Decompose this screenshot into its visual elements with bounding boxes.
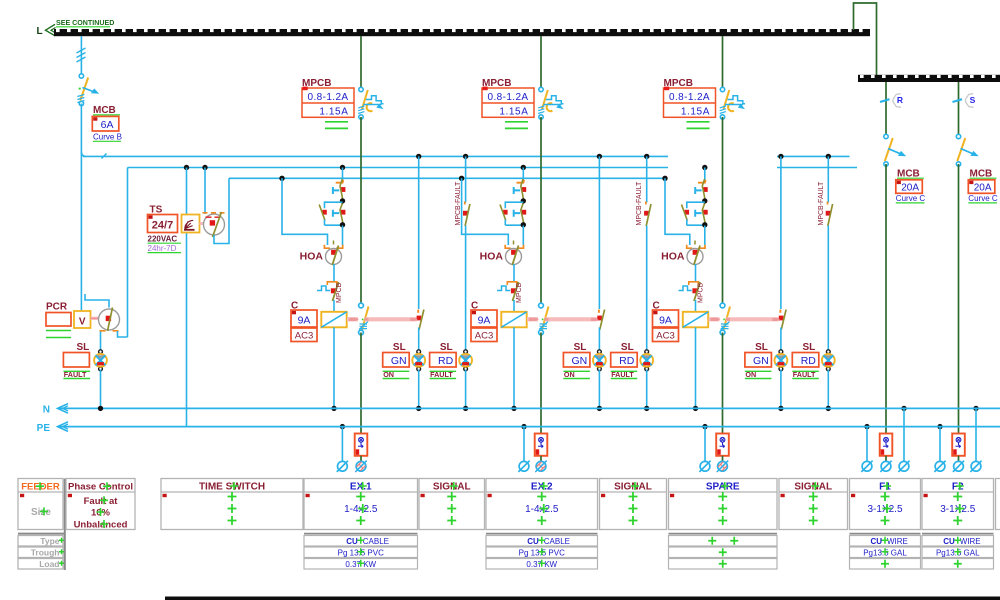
svg-text:0.8-1.2A: 0.8-1.2A: [669, 92, 710, 103]
wire: EX.2 SL RD lamp to N bus: [646, 370, 648, 409]
svg-text:HOA: HOA: [480, 250, 504, 262]
wire: SL FAULT lamp to N bus: [100, 370, 102, 409]
terminal EX.2 PE: [518, 461, 529, 472]
svg-text:Curve C: Curve C: [968, 194, 998, 203]
svg-text:V: V: [79, 317, 86, 328]
wire: control bus L1 segment B (SPARE lamps): [777, 155, 850, 157]
svg-text:AC3: AC3: [656, 331, 674, 342]
node: N bus junction (PCR lamp): [98, 406, 103, 411]
wire: SPARE SL RD lamp to N bus: [827, 370, 829, 409]
table: FEEDER sub rows Type/Trough/Load: [18, 533, 64, 535]
contact: contactor SPARE main contact: [720, 303, 730, 335]
breaker MCB F1 symbol: [884, 134, 906, 166]
svg-text:TIME SWITCH: TIME SWITCH: [199, 482, 265, 493]
svg-text:MPCB: MPCB: [698, 282, 705, 303]
wire: EX.2 terminal stub: [540, 456, 542, 461]
lamp SL GN ON EX.1 symbol: [412, 350, 425, 371]
wire: SPARE fault aux to SL RD lamp: [827, 226, 829, 352]
wire: MCB 6A to PCR voltage relay V: [80, 104, 82, 312]
svg-text:Size: Size: [31, 507, 51, 518]
svg-text:AC3: AC3: [475, 331, 493, 342]
wire: drop from L busbar to MCB Q0: [80, 36, 82, 76]
table: column EX.1 sub-table: [304, 533, 418, 535]
wire: SPARE HOA to MPCB aux contact: [695, 264, 697, 281]
svg-text:3-1X2.5: 3-1X2.5: [867, 504, 902, 515]
lamp SL RD FAULT SPARE symbol: [822, 350, 835, 371]
wire: SPARE MPCB aux to contactor coil: [695, 300, 697, 312]
contact: EX.2 contactor aux NO: [598, 310, 600, 313]
switch HOA EX.1 circle: [326, 249, 342, 265]
wire: control bus L2 (y=167.5): [128, 167, 669, 169]
linkage EX.1 coil to contacts (pink): [347, 317, 358, 321]
breaker MCB F2 symbol: [956, 134, 978, 166]
svg-text:1.15A: 1.15A: [499, 106, 528, 117]
timer TS dial icon box: [182, 215, 200, 233]
wire: EX.2 SL ON lamp to N bus: [598, 370, 600, 409]
linkage SPARE coil to contacts (pink): [709, 317, 720, 321]
table: column F1 (849): [850, 479, 921, 530]
svg-text:GN: GN: [753, 355, 769, 367]
svg-text:3-1X2.5: 3-1X2.5: [940, 504, 975, 515]
svg-text:SL: SL: [77, 342, 90, 353]
table: column EX.2 sub-table: [486, 533, 598, 535]
svg-text:CABLE: CABLE: [363, 537, 389, 546]
svg-text:SEE CONTINUED: SEE CONTINUED: [56, 19, 114, 27]
wire: EX.1 aux NO to SL ON lamp: [418, 328, 420, 352]
svg-text:FAULT: FAULT: [611, 370, 634, 379]
wire: EX.2 selector feed from bus L2: [521, 165, 526, 170]
wire: PE bus: [58, 426, 1000, 428]
svg-text:F2: F2: [952, 482, 964, 493]
wire: EX.1 PE terminal drop: [340, 424, 345, 429]
svg-text:ON: ON: [564, 370, 575, 379]
relay PCR coil V box: [74, 311, 91, 328]
table: column SIGNAL (599): [600, 479, 667, 530]
contact: contactor EX.1 main contact: [359, 303, 369, 335]
breaker MCB 6A (symbol): [77, 74, 99, 106]
table: column SPARE (668): [669, 479, 778, 530]
contact: EX.2 selector position 2 (right): [514, 210, 520, 217]
wire: riser x=127.5 to control bus L2: [127, 168, 129, 338]
lamp SL FAULT (PCR) symbol: [94, 350, 107, 371]
svg-text:SL: SL: [621, 342, 634, 353]
svg-text:CU: CU: [527, 537, 539, 546]
svg-text:S: S: [970, 95, 976, 105]
svg-text:RD: RD: [801, 355, 817, 367]
wire: EX.1 ON lamp line from bus L1: [416, 154, 421, 159]
wire: SPARE selector feed from bus L2: [702, 165, 707, 170]
table: column EX.2 (486): [486, 479, 598, 530]
wire: L busbar (top horizontal busbar): [54, 29, 870, 36]
wire: F1 PE terminal drop: [864, 424, 869, 429]
wire: control bus L2 segment B: [777, 167, 857, 169]
svg-text:CU: CU: [943, 537, 955, 546]
terminal block EX.2: [535, 434, 548, 456]
svg-text:Phase Control: Phase Control: [68, 481, 133, 492]
svg-text:20A: 20A: [974, 183, 992, 194]
svg-text:ON: ON: [745, 370, 756, 379]
wire: EX.1 SL ON lamp to N bus: [418, 370, 420, 409]
svg-text:SIGNAL: SIGNAL: [794, 482, 832, 493]
svg-text:Load: Load: [39, 559, 59, 569]
svg-text:SL: SL: [574, 342, 587, 353]
svg-text:Curve B: Curve B: [93, 133, 122, 142]
contactor EX.2 coil: [501, 312, 526, 328]
wire: EX.1 selector feed from bus L2: [340, 165, 345, 170]
lamp SL GN ON EX.2 symbol: [593, 350, 606, 371]
svg-text:0.8-1.2A: 0.8-1.2A: [307, 92, 348, 103]
svg-text:SL: SL: [440, 342, 453, 353]
contact: EX.2 selector position 1: [517, 180, 525, 183]
wire: F2 green line MCB to terminal: [958, 164, 960, 434]
lamp SL RD FAULT EX.1 symbol: [459, 350, 472, 371]
terminal EX.1 PE: [337, 461, 348, 472]
wire: EX.2 green line main contact to terminal: [540, 333, 542, 434]
svg-text:N: N: [43, 405, 50, 416]
wire: EX.2 HOA to MPCB aux contact: [513, 264, 515, 281]
wire: EX.1 selector bracket lower: [325, 224, 343, 226]
wire: SPARE selector output down to HOA: [704, 226, 706, 246]
svg-text:9A: 9A: [298, 314, 311, 326]
contact: SPARE selector position 1: [698, 180, 706, 183]
wire: EX.1 selector bracket upper: [325, 202, 343, 208]
svg-text:9A: 9A: [478, 314, 491, 326]
contactor SPARE coil: [683, 312, 708, 328]
wire: SPARE ON lamp line from bus L1: [778, 154, 783, 159]
wire: control bus L3 (y=178.3) after time switch: [229, 177, 665, 179]
wire: SPARE hand feed from bus L3: [662, 176, 667, 181]
wire: EX.2 fault aux to SL RD lamp: [646, 226, 648, 352]
terminal block EX.1: [355, 434, 368, 456]
svg-text:EX.2: EX.2: [531, 482, 553, 493]
wire: control bus L1 tap corner: [81, 152, 85, 156]
contactor EX.1 coil: [321, 312, 346, 328]
wire: EX.2 aux NO to SL ON lamp: [598, 328, 600, 352]
svg-text:ON: ON: [383, 370, 394, 379]
svg-text:L: L: [37, 26, 43, 37]
svg-text:FAULT: FAULT: [64, 370, 87, 379]
svg-text:Type: Type: [40, 536, 59, 546]
breaker MPCB EX.2 symbol: [538, 87, 563, 119]
contact: TS timed contact: [204, 214, 225, 235]
terminal block SPARE: [716, 434, 729, 456]
svg-text:SL: SL: [755, 342, 768, 353]
svg-text:RD: RD: [438, 355, 454, 367]
wire: F1 drop from right busbar: [885, 82, 887, 137]
wire: EX.2 green line MPCB to main contact: [540, 117, 542, 305]
wire: EX.1 green line MPCB to main contact: [360, 117, 362, 305]
table: Phase Control box: [66, 479, 135, 530]
node R: phase tag: [893, 94, 901, 108]
breaker MPCB SPARE symbol: [720, 87, 745, 119]
svg-text:RD: RD: [619, 355, 635, 367]
linkage PCR V to contact: [91, 317, 100, 320]
wire: SPARE SL ON lamp to N bus: [780, 370, 782, 409]
terminal SPARE outgoing (hatched): [717, 461, 729, 473]
svg-text:HOA: HOA: [300, 250, 324, 262]
svg-text:CU: CU: [870, 537, 882, 546]
linkage EX.2 coil to contacts (pink): [527, 317, 538, 321]
svg-text:MPCB-FAULT: MPCB-FAULT: [636, 181, 643, 226]
wire: F2 PE terminal drop: [937, 424, 942, 429]
terminal F1 outgoing: [880, 461, 891, 472]
switch HOA EX.2 brackets: [505, 245, 523, 248]
svg-text:SPARE: SPARE: [706, 482, 740, 493]
wire: SPARE terminal stub: [722, 456, 724, 461]
wire: EX.1 MPCB aux to contactor coil: [333, 300, 335, 312]
table: column EX.1 (304): [304, 479, 418, 530]
switch HOA SPARE brackets: [687, 245, 705, 248]
table: FEEDER box: [18, 479, 63, 530]
svg-text:MPCB-FAULT: MPCB-FAULT: [818, 181, 825, 226]
table: partial column at right edge: [996, 479, 1000, 530]
breaker MPCB EX.1 symbol: [358, 87, 383, 119]
svg-text:WIRE: WIRE: [887, 537, 908, 546]
terminal SPARE PE: [699, 461, 710, 472]
svg-text:AC3: AC3: [295, 331, 313, 342]
svg-text:PCR: PCR: [46, 302, 68, 313]
svg-text:PE: PE: [37, 423, 51, 434]
wire: EX.1 SL RD lamp to N bus: [465, 370, 467, 409]
wire: SPARE selector bracket lower: [687, 224, 705, 226]
svg-text:1.15A: 1.15A: [681, 106, 710, 117]
wire: SPARE FAULT lamp line from bus L1: [826, 154, 831, 159]
wire: EX.2 power feeder (green) from L busbar: [540, 36, 542, 90]
svg-text:FAULT: FAULT: [430, 370, 453, 379]
svg-text:FAULT: FAULT: [793, 370, 816, 379]
linkage TS to contact: [200, 222, 205, 225]
contact: SPARE MPCB aux contact: [689, 282, 699, 285]
svg-text:Fault at: Fault at: [84, 496, 119, 507]
node S: phase tag: [966, 94, 974, 108]
contact: EX.1 selector position 2 (left): [322, 210, 327, 215]
svg-text:220VAC: 220VAC: [148, 235, 178, 244]
3-phase slash marks on MCB drop: [77, 48, 86, 62]
svg-text:R: R: [897, 95, 903, 105]
terminal block F1: [880, 434, 893, 456]
wire: SPARE PE terminal drop: [702, 424, 707, 429]
lamp SL GN ON SPARE symbol: [775, 350, 788, 371]
svg-text:EX.1: EX.1: [350, 482, 372, 493]
svg-text:24/7: 24/7: [152, 220, 173, 232]
wire: EX.1 green line main contact to terminal: [360, 333, 362, 434]
switch HOA EX.1 brackets: [324, 245, 342, 248]
wire: F1 N terminal drop: [901, 406, 906, 411]
svg-text:SL: SL: [393, 342, 406, 353]
wire: EX.1 fault aux to SL RD lamp: [465, 226, 467, 352]
wire: continued busbar at bottom edge: [165, 597, 1000, 600]
svg-text:GN: GN: [572, 355, 588, 367]
terminal F2 outgoing: [953, 461, 964, 472]
terminal EX.2 outgoing (hatched): [535, 461, 547, 473]
svg-text:24hr-7D: 24hr-7D: [148, 244, 177, 253]
terminal block F2: [952, 434, 965, 456]
contact: contactor EX.2 main contact: [539, 303, 549, 335]
svg-text:9A: 9A: [659, 314, 672, 326]
svg-text:20A: 20A: [901, 183, 919, 194]
wire: drop bus L2 to PE (x=186.5): [184, 165, 189, 170]
wire: drop bus L2 to TS contact: [202, 165, 207, 170]
wire: EX.2 FAULT lamp line from bus L1: [644, 154, 649, 159]
lamp SL RD FAULT EX.2 symbol: [640, 350, 653, 371]
svg-text:MPCB: MPCB: [516, 282, 523, 303]
contact: SPARE selector position 2 (right): [695, 210, 701, 217]
wire: EX.1 terminal stub: [360, 456, 362, 461]
wire: EX.2 selector bracket lower: [505, 224, 523, 226]
table: column F2 (922): [922, 479, 994, 530]
wire: right busbar: [858, 75, 1000, 82]
svg-text:CU: CU: [346, 537, 358, 546]
wire: EX.2 PE terminal drop: [521, 424, 526, 429]
wire: EX.1 coil to N bus: [333, 327, 335, 408]
contact: PCR changeover contact: [99, 309, 120, 330]
table: column F1 sub-table: [850, 533, 921, 535]
svg-text:SIGNAL: SIGNAL: [614, 482, 652, 493]
wire: TS contact output to control bus L3: [214, 178, 229, 243]
wire: SPARE selector bracket upper: [687, 202, 705, 208]
svg-text:F1: F1: [879, 482, 891, 493]
wire: EX.2 selector output down to HOA: [522, 226, 524, 246]
table: column SPARE sub-table: [669, 533, 778, 535]
wire: F2 drop from right busbar: [958, 82, 960, 137]
svg-text:SIGNAL: SIGNAL: [433, 482, 471, 493]
wire: EX.1 power feeder (green) from L busbar: [360, 36, 362, 90]
wire: SPARE aux NO to SL ON lamp: [780, 328, 782, 352]
contact: EX.1 contactor aux NO: [417, 310, 419, 313]
svg-text:Trough: Trough: [31, 547, 60, 557]
contact: SPARE contactor aux NO: [779, 310, 781, 313]
svg-text:1-4x2.5: 1-4x2.5: [344, 504, 378, 515]
contact: EX.1 selector position 1: [336, 180, 344, 183]
svg-text:0.8-1.2A: 0.8-1.2A: [487, 92, 528, 103]
wire: EX.2 selector bracket upper: [505, 202, 523, 208]
wire: PCR contact NC side jog to control bus L2 riser: [118, 331, 128, 337]
table: column SIGNAL (419): [419, 479, 485, 530]
svg-text:CABLE: CABLE: [544, 537, 570, 546]
table: column TIME SWITCH (161): [161, 479, 303, 530]
contact: SPARE selector position 2 (left): [685, 210, 690, 215]
svg-text:Curve C: Curve C: [896, 194, 926, 203]
svg-text:1.15A: 1.15A: [319, 106, 348, 117]
svg-text:WIRE: WIRE: [960, 537, 981, 546]
svg-text:SL: SL: [803, 342, 816, 353]
wire: SPARE green line main contact to terminal: [722, 333, 724, 434]
svg-text:1-4x2.5: 1-4x2.5: [525, 504, 559, 515]
wire: jumper from L busbar to right busbar: [854, 3, 877, 76]
contact: EX.1 MPCB aux contact: [327, 282, 337, 285]
switch HOA SPARE circle: [687, 249, 703, 265]
terminal EX.1 outgoing (hatched): [355, 461, 367, 473]
svg-text:HOA: HOA: [661, 250, 685, 262]
table: column SIGNAL (779): [779, 479, 848, 530]
wire: EX.2 coil to N bus: [513, 327, 515, 408]
contact: EX.2 MPCB aux contact: [507, 282, 517, 285]
wire: F2 N terminal drop: [973, 406, 978, 411]
svg-text:MPCB: MPCB: [336, 282, 343, 303]
wire: SPARE coil to N bus: [695, 327, 697, 408]
wire: SPARE power feeder (green) from L busbar: [722, 36, 724, 90]
wire: EX.1 hand feed from bus L3: [279, 176, 284, 181]
svg-text:6A: 6A: [101, 119, 114, 131]
contact: EX.1 selector position 2 (right): [333, 210, 339, 217]
wire: control bus L1 (y=156.4): [83, 155, 668, 157]
wire: SPARE green line MPCB to main contact: [722, 117, 724, 305]
wire: EX.2 hand feed from bus L3: [459, 176, 464, 181]
wire: EX.2 ON lamp line from bus L1: [597, 154, 602, 159]
switch HOA EX.2 circle: [506, 249, 522, 265]
wire: EX.1 HOA to MPCB aux contact: [333, 264, 335, 281]
wire: EX.1 FAULT lamp line from bus L1: [463, 154, 468, 159]
wire: EX.1 selector output down to HOA: [342, 226, 344, 246]
wire: EX.2 MPCB aux to contactor coil: [513, 300, 515, 312]
svg-text:GN: GN: [391, 355, 407, 367]
contact: EX.2 selector position 2 (left): [503, 210, 508, 215]
wire: N bus: [58, 407, 1000, 409]
wire: F1 green line MCB to terminal: [885, 164, 887, 434]
wire: PCR contact to SL FAULT lamp: [100, 332, 102, 352]
wire: stub feeding PCR contact: [85, 294, 109, 308]
table: column F2 sub-table: [922, 533, 994, 535]
